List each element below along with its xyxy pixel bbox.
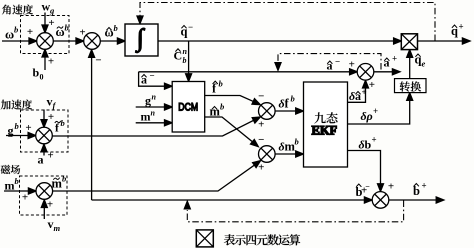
svg-text:+: +	[361, 184, 367, 196]
svg-text:+: +	[422, 181, 427, 191]
block: nine-state EKF	[304, 82, 348, 167]
label w_g	[42, 0, 56, 16]
legend text: represents quaternion operation	[224, 234, 300, 245]
label delta-b-plus	[359, 135, 377, 152]
label: jiasudu (acceleration)	[1, 100, 32, 110]
label v_m	[48, 217, 61, 233]
svg-text:q: q	[181, 25, 188, 39]
label b-hat-plus output	[413, 181, 427, 199]
wire: delta-rho-plus from EKF up into conversion box	[348, 97, 410, 124]
wire: dash-dot a-hat delay feedback	[278, 54, 381, 70]
label delta-m-b	[279, 137, 299, 154]
summing junction J3 accelerometer	[36, 127, 53, 144]
svg-text:f: f	[55, 123, 59, 135]
svg-text:b: b	[62, 174, 66, 184]
label m-n	[141, 109, 156, 124]
quaternion operator box (crossed square)	[401, 34, 417, 50]
summing junction J6 delta-m	[259, 146, 276, 163]
svg-text:f: f	[53, 101, 57, 111]
svg-text:0: 0	[40, 73, 44, 82]
summing junction J5 delta-f	[259, 103, 276, 120]
svg-text:DCM: DCM	[178, 101, 198, 113]
wire: a-hat-plus output arrow from sum J7	[374, 71, 397, 73]
svg-text:b: b	[365, 138, 372, 152]
label delta-rho-plus	[361, 106, 379, 123]
svg-text:b: b	[15, 121, 19, 131]
wire: conversion box q-e up into quaternion operator	[409, 54, 411, 79]
wire: a-hat-minus horizontal line into sum J7	[139, 71, 354, 73]
svg-text:+: +	[373, 106, 378, 116]
block: integrator	[125, 24, 158, 56]
svg-text:b: b	[291, 94, 295, 104]
wire: w_g noise arrow down into gyro sum	[44, 13, 46, 29]
svg-text:+: +	[372, 135, 377, 145]
label q-hat-e	[415, 53, 426, 69]
summing junction J2 gyro bias subtract	[84, 33, 101, 50]
label omega-b input	[5, 25, 18, 42]
wire: dash-dot quaternion feedback top line	[140, 3, 435, 42]
svg-text:+: +	[25, 122, 31, 134]
svg-text:e: e	[422, 59, 426, 69]
wire: omega-b input arrow into gyro sum	[2, 40, 34, 42]
svg-text:−: −	[188, 22, 193, 32]
wire: dash-dot b-hat delay feedback	[187, 201, 403, 222]
svg-text:+: +	[349, 58, 355, 70]
svg-text:+: +	[258, 161, 264, 173]
dashed sensor box: gyro	[21, 16, 70, 54]
summing junction J7 a-hat correction	[357, 64, 374, 81]
svg-text:f: f	[285, 97, 290, 111]
svg-text:m: m	[5, 179, 15, 193]
svg-text:g: g	[49, 6, 55, 16]
wire: b_0 bias arrow up into gyro sum	[44, 54, 46, 71]
label v_f	[47, 95, 57, 111]
wire: m-b input arrow into mag sum	[4, 190, 32, 192]
svg-text:−: −	[150, 71, 155, 81]
summing junction J8 b-hat correction	[372, 192, 389, 209]
svg-text:b: b	[15, 176, 19, 186]
svg-text:−: −	[95, 55, 101, 67]
label b_0	[33, 66, 44, 82]
summing junction J1 gyro noise/bias	[37, 33, 54, 50]
wire: delta-f-b into EKF	[275, 110, 300, 112]
svg-text:b: b	[183, 56, 187, 65]
label b-hat-minus	[356, 182, 371, 199]
label m-tilde-b	[52, 174, 67, 191]
svg-text:+: +	[48, 111, 54, 123]
label: cichang (magnetic field)	[1, 165, 20, 174]
svg-text:+: +	[47, 199, 53, 211]
label m-b input	[5, 176, 19, 193]
wire: a-hat-minus U-branch into DCM input	[139, 72, 169, 86]
wire: f-tilde-b measured line diagonal into sum J5	[52, 119, 257, 137]
svg-text:ω: ω	[5, 28, 14, 42]
svg-text:g: g	[8, 124, 14, 138]
svg-text:b: b	[219, 79, 223, 89]
wire: f-hat-b from DCM diagonal into sum J5	[205, 96, 257, 104]
label omega-hat-b	[105, 23, 118, 40]
svg-text:m: m	[141, 110, 151, 124]
block: DCM	[172, 82, 205, 133]
wire: g-n reference into DCM	[136, 106, 169, 108]
svg-text:+: +	[388, 181, 394, 193]
svg-text:ρ: ρ	[366, 109, 373, 123]
label g-b input	[8, 121, 19, 138]
label a-hat-minus (into J7)	[327, 57, 341, 73]
wire: g-b input arrow into accel sum	[6, 135, 32, 137]
label f-hat-b (DCM output)	[212, 79, 223, 96]
wire: bias feedback vertical up into sum J2 minus	[91, 54, 93, 200]
wire: m-hat-b from DCM diagonal into sum J6	[205, 117, 256, 144]
label omega-tilde-b	[56, 23, 69, 40]
svg-text:m: m	[54, 223, 61, 233]
wire: b-hat-plus output arrow from sum J8	[389, 199, 440, 201]
svg-text:−: −	[335, 57, 340, 67]
label delta-f-b	[279, 94, 295, 111]
wire: v_f noise arrow down into accel sum	[43, 110, 45, 124]
wire: a disturbance arrow up into accel sum	[43, 148, 45, 156]
svg-text:n: n	[152, 93, 157, 102]
svg-text:m: m	[52, 177, 63, 191]
svg-text:q: q	[451, 24, 458, 38]
label a-hat-plus	[384, 54, 398, 70]
wire: integrator output q-hat-minus long line to quaternion operator	[158, 40, 398, 42]
label: jiaosudu (angular velocity)	[2, 5, 33, 15]
wire: gyro sum J1 to sum J2	[53, 40, 80, 42]
wire: C-b-n branch down into DCM top	[188, 41, 190, 78]
label m-hat-b (DCM output)	[210, 102, 225, 119]
legend quaternion symbol	[196, 230, 213, 247]
svg-text:+: +	[27, 26, 33, 38]
wire: q-hat-plus output arrow	[418, 40, 467, 42]
svg-text:−: −	[258, 91, 264, 103]
svg-text:+: +	[459, 22, 464, 32]
svg-text:C: C	[174, 49, 183, 63]
svg-text:b: b	[61, 118, 65, 128]
svg-text:b: b	[220, 102, 224, 112]
block: conversion (zhuanhuan)	[395, 79, 427, 93]
svg-text:+: +	[47, 150, 53, 162]
wire: v_m noise arrow up into mag sum	[43, 204, 45, 219]
svg-text:+: +	[48, 17, 54, 29]
svg-text:g: g	[145, 94, 151, 108]
label C-hat-b-n	[174, 47, 188, 65]
wire: m-n reference into DCM	[136, 122, 169, 124]
svg-text:+: +	[79, 27, 85, 39]
svg-text:+: +	[392, 54, 397, 64]
dashed sensor box: accelerometer	[21, 110, 69, 152]
label q-hat-minus	[181, 22, 194, 39]
label f-tilde-b	[55, 118, 65, 135]
svg-text:n: n	[151, 109, 156, 118]
wire: delta-m-b into EKF	[275, 153, 300, 155]
svg-text:a: a	[38, 153, 44, 167]
svg-text:+: +	[369, 79, 375, 91]
wire: delta-b-plus from EKF down into sum J8	[348, 151, 381, 188]
svg-text:+: +	[258, 118, 264, 130]
wire: b-hat-minus horizontal line into sum J8	[92, 199, 369, 201]
svg-text:−: −	[258, 134, 264, 146]
svg-text:+: +	[362, 87, 367, 97]
label a disturbance	[38, 153, 44, 167]
svg-text:b: b	[114, 23, 118, 33]
svg-text:b: b	[14, 25, 18, 35]
svg-text:b: b	[295, 137, 299, 147]
label delta-a-hat-plus	[349, 87, 367, 103]
svg-text:+: +	[48, 56, 54, 68]
label a-hat-minus (DCM input)	[141, 71, 155, 87]
svg-text:b: b	[33, 66, 40, 80]
svg-text:+: +	[22, 192, 28, 204]
label g-n	[145, 93, 157, 108]
summing junction J4 magnetometer	[36, 183, 53, 200]
wire: m-tilde-b measured line diagonal into sum J6	[53, 163, 258, 191]
svg-text:n: n	[183, 47, 188, 56]
svg-text:b: b	[65, 23, 69, 33]
svg-text:∫: ∫	[135, 25, 145, 53]
svg-text:EKF: EKF	[312, 124, 338, 138]
wire: delta-a-hat-plus from EKF up into sum J7	[348, 85, 366, 103]
label q-hat-plus output	[451, 22, 464, 39]
wire: sum J2 to integrator	[100, 40, 121, 42]
dashed sensor box: magnetometer	[20, 176, 68, 215]
